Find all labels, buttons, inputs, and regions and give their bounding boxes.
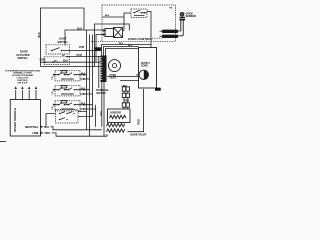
svg-text:SENSOR: SENSOR	[186, 15, 197, 18]
svg-text:T.B.: T.B.	[52, 106, 54, 110]
svg-text:ORG: ORG	[45, 132, 51, 135]
svg-text:BOARD: BOARD	[97, 92, 106, 95]
svg-text:LIGHT: LIGHT	[110, 78, 117, 80]
svg-text:BLK: BLK	[81, 73, 86, 75]
svg-text:PUR: PUR	[77, 54, 82, 57]
svg-text:BLK: BLK	[81, 88, 86, 90]
svg-text:RED: RED	[156, 89, 161, 91]
svg-text:IGNITOR: IGNITOR	[111, 112, 122, 115]
svg-text:BLK: BLK	[128, 45, 133, 47]
svg-text:T.B.: T.B.	[52, 76, 54, 80]
svg-text:BLK: BLK	[81, 103, 86, 105]
svg-text:BLK: BLK	[105, 15, 110, 17]
svg-text:OVEN CONTROL: OVEN CONTROL	[128, 37, 153, 41]
svg-text:4 IN 4 TOP: 4 IN 4 TOP	[17, 81, 28, 84]
svg-text:LINE: LINE	[32, 131, 39, 135]
svg-text:BLK: BLK	[44, 126, 49, 129]
svg-text:COM: COM	[40, 59, 46, 62]
svg-text:SPARK MODULE: SPARK MODULE	[13, 108, 17, 132]
svg-text:RED: RED	[124, 100, 129, 103]
svg-text:NEUTRAL: NEUTRAL	[25, 125, 39, 129]
svg-text:SWITCH: SWITCH	[18, 57, 28, 60]
svg-text:BLK: BLK	[119, 43, 124, 45]
svg-text:PUR: PUR	[79, 46, 84, 49]
svg-text:BLK: BLK	[38, 32, 41, 37]
svg-text:NC: NC	[62, 55, 66, 57]
svg-text:SWITCH: SWITCH	[58, 41, 68, 44]
svg-text:BLK: BLK	[63, 59, 68, 62]
svg-text:BAKE VALVE: BAKE VALVE	[131, 134, 147, 137]
svg-text:OVEN: OVEN	[110, 75, 117, 77]
svg-text:PUR: PUR	[95, 49, 100, 51]
svg-text:BLK: BLK	[77, 27, 82, 30]
svg-text:T.B.: T.B.	[52, 91, 54, 95]
svg-text:CORD: CORD	[141, 66, 148, 68]
svg-text:RED: RED	[137, 119, 140, 124]
